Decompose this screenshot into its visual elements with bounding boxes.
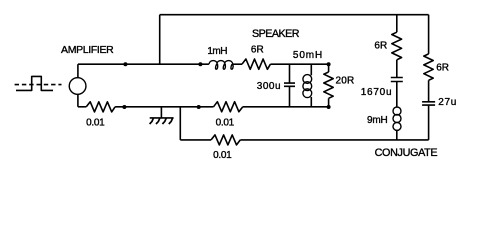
capacitor 300u plates: [284, 83, 295, 86]
ground stub: [160, 107, 162, 118]
junction dot amp-: [122, 105, 126, 109]
inductor 9mH bottom lead: [396, 130, 398, 140]
junction dot 20R bottom: [327, 105, 331, 109]
wire left conj branch top lead: [396, 15, 398, 33]
wire amp top lead: [77, 64, 79, 77]
svg-text:AMPLIFIER: AMPLIFIER: [61, 44, 114, 56]
capacitor 27u plates: [422, 102, 435, 105]
svg-text:6R: 6R: [436, 63, 449, 74]
svg-text:0.01: 0.01: [86, 118, 105, 129]
svg-text:6R: 6R: [374, 40, 387, 51]
junction dot amp+: [123, 62, 127, 66]
input square-wave signal dashed zero line: [15, 84, 62, 86]
wire 6R to 27u: [428, 80, 430, 101]
wire conjugate net left: [180, 139, 211, 141]
ground chassis symbol hatches: [150, 118, 173, 124]
svg-text:6R: 6R: [251, 45, 264, 56]
svg-text:1mH: 1mH: [207, 46, 227, 57]
inductor 50mH top lead: [310, 64, 312, 75]
inductor 1mH: [209, 61, 233, 70]
wire top rail riser: [159, 15, 161, 64]
capacitor 1670u bottom lead: [396, 82, 398, 107]
wire right conj branch top lead: [428, 15, 430, 54]
svg-text:0.01: 0.01: [213, 150, 232, 161]
capacitor 300u top lead: [289, 64, 291, 82]
resistor 6R conj1: [392, 32, 402, 60]
resistor 0.01 series: [214, 102, 243, 112]
resistor 6R conj2: [424, 54, 433, 80]
svg-text:300u: 300u: [257, 81, 281, 92]
svg-text:50mH: 50mH: [293, 50, 323, 61]
resistor 20R: [324, 72, 333, 98]
wire 6R to speaker group: [270, 63, 328, 65]
wire riser to conjugate branch: [179, 107, 181, 140]
wire between 1mH and 6R: [232, 63, 242, 65]
wire conjugate net right: [240, 139, 428, 141]
svg-text:SPEAKER: SPEAKER: [252, 28, 300, 40]
capacitor 300u bottom lead: [289, 87, 291, 107]
inductor 50mH loops: [303, 75, 312, 84]
wire 0.01 to speaker bottom: [243, 106, 329, 108]
input square-wave pulse: [16, 76, 53, 90]
svg-text:27u: 27u: [438, 97, 457, 108]
resistor 0.01 conjugate: [211, 135, 240, 145]
svg-text:9mH: 9mH: [367, 115, 388, 126]
svg-text:0.01: 0.01: [216, 118, 235, 129]
svg-text:1670u: 1670u: [361, 87, 393, 98]
resistor 20R lead bottom: [328, 98, 330, 107]
wire top net y=64 left segment: [78, 63, 209, 65]
inductor 50mH bottom lead: [310, 97, 312, 107]
resistor 0.01 amp: [86, 102, 115, 112]
resistor 20R lead top: [328, 64, 330, 72]
junction dot series-: [197, 105, 201, 109]
junction dot 20R top: [327, 62, 331, 66]
svg-text:CONJUGATE: CONJUGATE: [375, 147, 438, 159]
wire amp bottom lead: [77, 94, 79, 107]
wire bottom net middle: [115, 106, 213, 108]
capacitor 1670u plates: [391, 78, 403, 82]
resistor 6R series: [242, 59, 270, 69]
capacitor 27u bottom lead: [428, 106, 430, 140]
wire 6R to 1670u: [396, 60, 398, 77]
wire bottom net y=106.8 start: [78, 106, 86, 108]
amplifier source V1: [69, 78, 86, 95]
ground chassis symbol bar: [150, 117, 174, 119]
wire top rail: [160, 14, 429, 16]
junction dot speaker+: [198, 62, 202, 66]
inductor 9mH loops: [393, 107, 401, 115]
svg-text:20R: 20R: [335, 75, 354, 86]
